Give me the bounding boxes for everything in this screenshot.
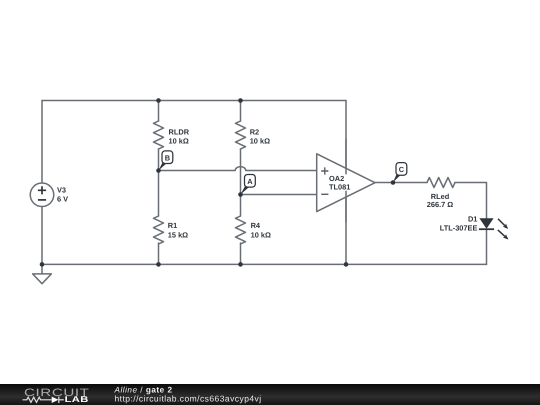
LED D1 cathode bar (479, 228, 494, 230)
junction dot bottom rail / R1 (156, 262, 161, 267)
resistor R1 (154, 216, 164, 244)
junction node A (238, 192, 243, 197)
op-amp plus/minus input marks (321, 167, 328, 194)
wire node A to R4 (240, 195, 242, 217)
svg-text:B: B (165, 153, 170, 162)
junction node B (156, 168, 161, 173)
svg-text:V3: V3 (57, 186, 66, 195)
node label A (241, 175, 256, 195)
wire R1 bottom lead (158, 243, 160, 264)
label OA2 TL081 (white backing over power line) (328, 174, 352, 190)
svg-text:10 kΩ: 10 kΩ (169, 137, 189, 146)
svg-text:6 V: 6 V (57, 195, 68, 204)
node label B (159, 151, 173, 171)
wire top rail (42, 100, 346, 102)
wire op-amp output to RLed (375, 182, 427, 184)
junction dot bottom rail / R4 (238, 262, 243, 267)
svg-text:D1: D1 (468, 215, 477, 224)
svg-text:http://circuitlab.com/cs663avc: http://circuitlab.com/cs663avcyp4vj (115, 393, 262, 403)
junction dot top rail / R2 (238, 98, 243, 103)
svg-text:R1: R1 (168, 221, 177, 230)
LED light arrow 2 (496, 228, 510, 241)
svg-text:R4: R4 (251, 221, 261, 230)
junction node C (391, 180, 396, 185)
svg-text:15 kΩ: 15 kΩ (168, 231, 188, 240)
node label C (393, 163, 407, 183)
svg-text:R2: R2 (250, 127, 259, 136)
node dots (40, 98, 396, 267)
svg-text:266.7 Ω: 266.7 Ω (427, 200, 454, 209)
wire RLDR bottom lead to node B (158, 149, 160, 171)
ground symbol triangle (33, 274, 52, 284)
svg-text:LTL-307EE: LTL-307EE (440, 224, 478, 233)
wire left column (V3 bottom lead) (41, 206, 43, 264)
voltage source V3 circle (30, 183, 54, 207)
svg-text:RLDR: RLDR (169, 127, 190, 136)
wire left column (V3 top lead) (41, 101, 43, 184)
voltage source V3 plus/minus (38, 186, 46, 200)
wire op-amp power rail through triangle (345, 139, 347, 222)
wire ground stub (41, 264, 43, 274)
junction dot bottom rail / op-amp power (344, 262, 349, 267)
svg-text:LAB: LAB (65, 394, 89, 404)
svg-text:TL081: TL081 (329, 183, 350, 192)
LED D1 anode triangle (479, 218, 493, 228)
wire R2 top lead (240, 101, 242, 122)
wire bottom rail (42, 263, 487, 265)
wire R4 bottom lead (240, 243, 242, 264)
wire R2 bottom lead to node A (240, 149, 242, 195)
svg-text:10 kΩ: 10 kΩ (251, 231, 271, 240)
wire node A to op-amp - input (241, 194, 317, 196)
LED D1 symbol (479, 217, 510, 241)
svg-text:A: A (247, 177, 253, 186)
junction dot top rail / RLDR (156, 98, 161, 103)
CircuitLab logo symbol row: wire-resistor-diode-LAB (23, 397, 64, 403)
resistor R4 (236, 216, 246, 244)
junction dot bottom rail / ground (40, 262, 45, 267)
wire RLed to right column (455, 183, 487, 219)
wire node B to op-amp + input (with hop over R2) (159, 167, 317, 171)
resistor RLed (427, 178, 455, 188)
resistor R2 (236, 121, 246, 149)
wire RLDR top lead (158, 101, 160, 122)
LED light arrow 1 (496, 217, 509, 230)
resistor RLDR (154, 121, 164, 149)
svg-text:10 kΩ: 10 kΩ (250, 137, 270, 146)
wire node B to R1 (158, 171, 160, 217)
wire op-amp power rail vertical (345, 101, 347, 265)
wire LED cathode to bottom rail (486, 229, 488, 264)
op-amp OA2 triangle (317, 154, 375, 212)
svg-text:C: C (399, 165, 405, 174)
